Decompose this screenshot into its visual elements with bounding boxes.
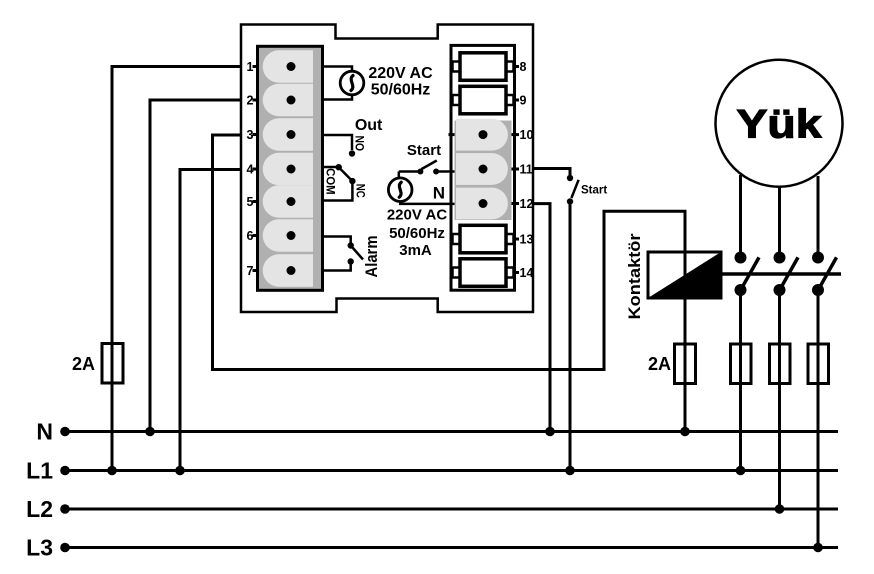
wire phase 2 to L2 via fuse F4 — [778, 290, 781, 509]
svg-text:6: 6 — [247, 229, 254, 243]
svg-text:14: 14 — [520, 266, 534, 280]
pin 13 label — [514, 233, 533, 247]
junction dot phase3-L3 — [813, 543, 823, 553]
svg-text:NC: NC — [353, 184, 367, 198]
svg-text:8: 8 — [520, 60, 527, 74]
wire Yük to contactor phase 2 — [778, 187, 781, 258]
pin 14 label — [514, 266, 533, 280]
wire L2 line — [60, 504, 838, 514]
svg-text:3mA: 3mA — [399, 242, 432, 259]
wire terminal1 to L1 via fuse F1 — [112, 67, 242, 471]
terminal 10 clamp — [456, 119, 508, 151]
contactor contact phase 1 — [735, 252, 760, 297]
contactor contact phase 3 — [812, 252, 837, 297]
junction dot wire2-N — [145, 427, 155, 437]
svg-text:L2: L2 — [26, 496, 53, 522]
pin 4 label — [247, 163, 258, 177]
terminal block left (1-7) — [258, 46, 323, 290]
junction dot phase1-L1 — [736, 466, 746, 476]
svg-text:2A: 2A — [648, 354, 671, 374]
pin 2 label — [247, 94, 258, 108]
svg-text:L1: L1 — [26, 458, 53, 484]
svg-text:7: 7 — [247, 264, 254, 278]
fuse F1 2A — [102, 344, 123, 384]
junction dot wire12-N — [545, 427, 555, 437]
svg-text:2: 2 — [247, 94, 254, 108]
svg-text:13: 13 — [520, 233, 534, 247]
terminal 8 box — [453, 53, 514, 81]
terminal 12 clamp — [456, 188, 508, 220]
svg-text:COM: COM — [324, 168, 338, 195]
svg-text:Kontaktör: Kontaktör — [625, 233, 644, 319]
svg-text:4: 4 — [247, 163, 254, 177]
AC source symbol internal — [388, 178, 454, 204]
load Yük circle — [716, 60, 843, 187]
wire terminal 12 to N — [533, 204, 550, 432]
svg-text:NO: NO — [353, 136, 367, 152]
relay Alarm contacts — [323, 237, 364, 271]
fuse F4 — [770, 344, 791, 384]
terminal 11 clamp — [456, 153, 508, 185]
svg-text:1: 1 — [247, 60, 254, 74]
wire Yük to contactor phase 3 — [817, 176, 820, 258]
wire contactor coil to N via fuse F2 — [684, 298, 687, 432]
svg-text:N: N — [36, 419, 53, 445]
terminal 13 box — [453, 225, 514, 253]
pin 12 label — [512, 197, 534, 211]
svg-text:Start: Start — [407, 142, 441, 159]
wire terminal3 to contactor coil — [213, 135, 686, 370]
svg-text:3: 3 — [247, 128, 254, 142]
junction dot coil-N — [680, 427, 690, 437]
terminal 2 clamp — [263, 84, 313, 117]
pin 10 label — [449, 128, 534, 142]
svg-text:N: N — [433, 184, 445, 203]
svg-text:9: 9 — [520, 94, 527, 108]
pin 7 label — [247, 264, 258, 278]
svg-text:2A: 2A — [72, 354, 95, 374]
grey block terminals 10-12 — [455, 121, 512, 221]
wire terminal2 to N — [150, 100, 242, 432]
pin 8 label — [514, 60, 527, 74]
pin 9 label — [514, 94, 527, 108]
svg-text:10: 10 — [520, 128, 534, 142]
wire Yük to contactor phase 1 — [739, 175, 742, 258]
pin 11 label — [512, 163, 533, 177]
relay Out NC wire to terminal 5 — [323, 183, 353, 201]
svg-text:220V AC: 220V AC — [368, 65, 433, 82]
terminal 3 clamp — [263, 118, 313, 151]
contactor linkage bar — [721, 272, 841, 276]
switch Start internal — [399, 161, 455, 179]
fuse F5 — [808, 344, 829, 384]
contactor coil box — [648, 252, 721, 298]
wire phase 3 to L3 via fuse F5 — [817, 290, 820, 548]
terminal 1 clamp — [263, 50, 313, 83]
relay Out NO contact — [323, 135, 356, 157]
AC source symbol top (terminals 1-2) — [323, 67, 364, 100]
pin 5 label — [247, 195, 258, 209]
svg-text:Yük: Yük — [737, 103, 823, 147]
junction dot start-L1 — [565, 466, 575, 476]
fuse F3 — [731, 344, 752, 384]
fuse F2 2A — [675, 344, 696, 384]
svg-text:12: 12 — [520, 197, 534, 211]
pin 1 label — [247, 60, 258, 74]
wire L1 line — [60, 466, 838, 476]
svg-text:Alarm: Alarm — [362, 236, 381, 278]
contactor contact phase 2 — [774, 252, 799, 297]
svg-text:220V AC: 220V AC — [387, 207, 447, 224]
wire Start switch to L1 — [569, 205, 572, 471]
terminal 5 clamp — [263, 185, 313, 218]
svg-text:Out: Out — [355, 117, 383, 134]
switch Start external — [567, 175, 579, 205]
wire N line — [60, 427, 838, 437]
svg-text:11: 11 — [520, 163, 533, 177]
relay Out COM contact and blade — [323, 164, 356, 184]
terminal 6 clamp — [263, 219, 313, 252]
terminal 4 clamp — [263, 153, 313, 186]
svg-text:50/60Hz: 50/60Hz — [371, 81, 431, 98]
junction dot wire1-L1 — [107, 466, 117, 476]
svg-text:5: 5 — [247, 195, 254, 209]
svg-text:50/60Hz: 50/60Hz — [389, 225, 445, 242]
wire terminal4 to L1 — [180, 170, 242, 471]
wire terminal 11 to external Start switch — [533, 169, 570, 176]
svg-text:Start: Start — [581, 184, 607, 196]
device outline — [241, 25, 533, 313]
junction dot wire4-L1 — [175, 466, 185, 476]
pin 6 label — [247, 229, 258, 243]
terminal 14 box — [453, 259, 514, 287]
wire L3 line — [60, 543, 838, 553]
wire phase 1 to L1 via fuse F3 — [739, 290, 742, 471]
pin 3 label — [247, 128, 258, 142]
terminal 9 box — [453, 86, 514, 114]
svg-text:L3: L3 — [26, 535, 53, 561]
junction dot phase2-L2 — [775, 504, 785, 514]
terminal block right (8-14) — [451, 45, 515, 290]
terminal 7 clamp — [263, 254, 313, 287]
